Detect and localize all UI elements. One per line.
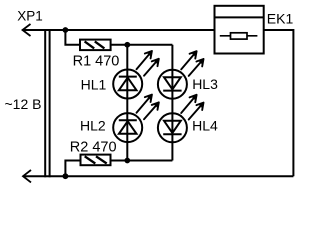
svg-text:R2 470: R2 470 <box>70 140 117 156</box>
svg-text:XP1: XP1 <box>17 9 43 24</box>
svg-text:R1 470: R1 470 <box>73 54 120 70</box>
svg-text:~12 В: ~12 В <box>5 96 42 112</box>
svg-text:HL1: HL1 <box>81 77 107 93</box>
svg-text:HL4: HL4 <box>192 117 218 133</box>
svg-text:HL2: HL2 <box>80 117 106 133</box>
svg-text:HL3: HL3 <box>192 76 218 92</box>
svg-text:EK1: EK1 <box>267 11 294 27</box>
